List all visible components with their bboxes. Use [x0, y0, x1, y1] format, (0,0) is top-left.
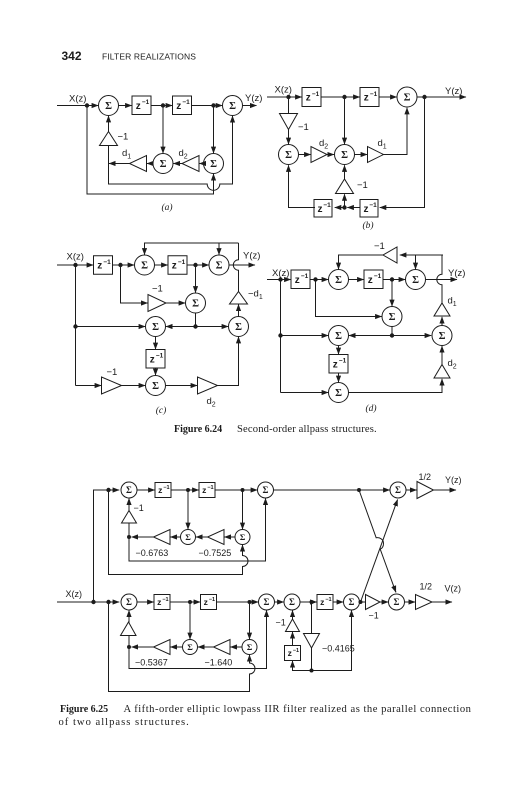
junction feedback bottom: [127, 645, 131, 649]
svg-text:FILTER REALIZATIONS: FILTER REALIZATIONS: [102, 52, 196, 62]
label -1 (d): [374, 241, 385, 252]
summer S3 (b): [335, 145, 355, 165]
wire -1 gain to S2 (b): [288, 130, 290, 145]
summer S5 (d): [432, 326, 452, 346]
wire Z2 to S1 (b): [379, 96, 397, 98]
wire BO1 to half gain: [405, 601, 415, 603]
wire B6 to -1.640 gain: [230, 646, 241, 648]
wire top feedback (d): [400, 254, 443, 256]
junction after Z2 (d): [390, 277, 394, 281]
svg-text:(d): (d): [365, 403, 376, 414]
summer B4 first-order: [344, 594, 360, 610]
wire tap U2 to B6: [249, 602, 251, 639]
junction top outer feedback: [106, 488, 110, 492]
wire Z1 to Z2 (b): [321, 96, 360, 98]
wire top feedback to S2 (c): [218, 243, 220, 255]
node X(z) label (c): [67, 252, 84, 263]
wire input X(z) (a): [57, 105, 98, 107]
label -1 top branch: [134, 503, 144, 513]
gain -1 triangle apex left (d): [383, 247, 397, 263]
svg-text:−1: −1: [370, 91, 378, 98]
wire outer feedback to S4 (a): [87, 106, 214, 195]
summer S5 (c): [229, 317, 249, 337]
wire S3 to d1 gain (b): [355, 154, 368, 156]
summer A4 top: [235, 530, 250, 545]
svg-text:−1: −1: [323, 202, 331, 209]
svg-text:Σ: Σ: [185, 532, 191, 542]
wire d2 to S3 (a): [173, 163, 182, 165]
wire output Y(z) (a): [243, 105, 257, 107]
node X(z) label (a): [69, 94, 86, 105]
svg-text:Second-order allpass structure: Second-order allpass structures.: [237, 424, 377, 435]
wire S5 to -d1 gain (c): [238, 304, 240, 316]
delay Z1 (a): [132, 96, 151, 115]
junction butterfly top: [357, 488, 361, 492]
svg-text:−1: −1: [209, 597, 215, 603]
wire S1 to delay Z1 (a): [119, 105, 132, 107]
wire S3 down to junction (c): [195, 313, 197, 327]
svg-text:Σ: Σ: [105, 101, 112, 112]
wire B4 to -1 gain bottom: [360, 601, 366, 603]
svg-text:Σ: Σ: [335, 388, 342, 399]
svg-text:z: z: [368, 275, 373, 286]
label -1.640: [205, 658, 233, 668]
junction after Z1 (a): [161, 103, 165, 107]
svg-text:−1: −1: [107, 367, 118, 378]
wire junction to S4 (c): [166, 326, 196, 328]
gain -0.4165 triangle apex down: [304, 634, 320, 649]
junction input branch (c): [73, 263, 77, 267]
svg-text:Y(z): Y(z): [245, 93, 262, 104]
node X(z) label (b): [275, 85, 292, 96]
node X(z) label (d): [272, 268, 289, 279]
svg-text:1/2: 1/2: [420, 582, 433, 592]
wire -d1 up with hop (c): [233, 243, 238, 292]
junction after Z1 (c): [118, 263, 122, 267]
svg-text:Figure 6.25: Figure 6.25: [60, 704, 108, 715]
wire Z3 to S6 (d): [338, 373, 340, 382]
gain d2 triangle (d): [434, 365, 450, 379]
svg-text:z: z: [97, 261, 102, 272]
wire input X(z) (b): [267, 96, 302, 98]
label d1 (a): [122, 148, 131, 160]
node Y(z) label (b): [445, 86, 462, 97]
svg-text:z: z: [204, 597, 208, 607]
wire -1 lower to S6 (c): [122, 385, 146, 387]
wire -1 gain to S1 (a): [108, 116, 110, 132]
junction input branch (b): [286, 95, 290, 99]
gain -0.5367 triangle: [154, 640, 171, 655]
wire -1 gain to S1 (d): [339, 255, 384, 269]
wire B3 to delay U3: [300, 601, 317, 603]
label -0.6763: [136, 548, 169, 558]
node X(z) label 6.25: [66, 589, 83, 599]
svg-text:342: 342: [62, 49, 82, 63]
label (c): [156, 405, 167, 416]
gain -1 triangle (a): [100, 132, 118, 146]
label -1 upper (b): [298, 122, 309, 133]
gain -1 triangle apex down (b): [280, 114, 298, 130]
svg-text:Σ: Σ: [152, 381, 159, 392]
wire X to S6 (d): [281, 392, 329, 394]
wire d1 to S1 (b): [384, 108, 408, 155]
wire inner feedback top to A2: [129, 498, 266, 561]
wire tap to -0.4165 gain: [311, 602, 313, 634]
junction feedback top: [127, 535, 131, 539]
wire inner feedback bottom to B2: [129, 610, 267, 668]
summer S4 (a): [204, 154, 224, 174]
svg-text:(a): (a): [161, 202, 172, 213]
gain half triangle bottom: [416, 595, 433, 610]
svg-text:Σ: Σ: [210, 159, 217, 170]
svg-text:z: z: [320, 597, 324, 607]
junction bottom (b): [342, 205, 346, 209]
svg-text:−1: −1: [293, 648, 299, 654]
svg-text:−1: −1: [298, 122, 309, 133]
label -0.4165: [322, 644, 355, 654]
junction X vertical row3 (c): [73, 324, 77, 328]
wire inner feedback with hop to S2 (a): [109, 116, 233, 190]
svg-text:Σ: Σ: [335, 331, 342, 342]
wire butterfly descending with hop: [359, 490, 396, 592]
svg-text:X(z): X(z): [67, 252, 84, 263]
gain -1 triangle first-order: [286, 619, 300, 632]
wire X riser to top branch: [94, 490, 120, 602]
svg-text:Σ: Σ: [192, 299, 199, 310]
wire S4 to Z3 (d): [338, 346, 340, 355]
label (a): [161, 202, 172, 213]
wire A3 to -0.6763 gain: [170, 536, 180, 538]
wire tap Z2 to S3 (d): [391, 280, 393, 307]
svg-text:−1: −1: [163, 485, 169, 491]
gain -1 triangle before output: [366, 595, 381, 610]
svg-text:Σ: Σ: [439, 331, 446, 342]
wire junction to S5 (d): [392, 335, 431, 337]
wire junction to S4 (d): [349, 335, 392, 337]
label d2 (b): [319, 138, 328, 150]
svg-text:−1: −1: [103, 259, 111, 266]
svg-text:−1: −1: [312, 91, 320, 98]
svg-text:z: z: [158, 485, 162, 495]
wire Z1 to S1 (c): [113, 264, 135, 266]
summer S3 (c): [186, 293, 206, 313]
node Y(z) label (a): [245, 93, 262, 104]
wire S4 to d2 gain (a): [199, 163, 203, 165]
summer B2 bottom: [259, 594, 275, 610]
delay U4 first-order feedback: [285, 646, 301, 661]
svg-text:−1: −1: [276, 618, 286, 628]
delay U3 first-order: [317, 595, 333, 610]
wire S2 to d2 gain (b): [299, 154, 311, 156]
junction after U1 bottom: [188, 600, 192, 604]
summer S2 (c): [209, 255, 229, 275]
junction X vertical row3 (d): [278, 333, 282, 337]
label -1 mid (c): [152, 284, 163, 295]
wire U4 to -1 gain first-order: [292, 632, 294, 646]
label -0.5367: [135, 658, 168, 668]
node Y(z) label (c): [243, 251, 260, 262]
wire butterfly ascending: [361, 500, 398, 603]
wire -0.6763 to junction: [132, 536, 154, 538]
svg-text:Σ: Σ: [341, 150, 348, 161]
wire -0.4165 to first-order line: [311, 648, 313, 671]
wire outer feedback bottom with hop to B6: [109, 602, 256, 692]
wire d2 to S3 (b): [327, 154, 334, 156]
summer S6 (d): [329, 383, 349, 403]
wire input X(z) 6.25: [57, 601, 119, 603]
wire S1 to Z2 (d): [349, 279, 364, 281]
delay Z2 (b): [360, 88, 379, 107]
wire input X(z) (c): [57, 264, 93, 266]
svg-text:z: z: [333, 359, 338, 370]
junction after T1 top: [186, 488, 190, 492]
delay Z2 (a): [173, 96, 192, 115]
svg-text:Σ: Σ: [160, 159, 167, 170]
svg-text:Y(z): Y(z): [243, 251, 260, 262]
svg-text:Figure 6.24: Figure 6.24: [174, 424, 222, 435]
summer S1 (a): [99, 96, 119, 116]
wire half gain to V(z): [432, 601, 452, 603]
label -1 (a): [118, 132, 129, 143]
caption figure 6.24: [174, 424, 377, 435]
svg-text:Σ: Σ: [216, 261, 223, 272]
wire junction to Z3 (b): [335, 207, 345, 209]
wire U1 to U2 bottom: [170, 601, 200, 603]
svg-text:Σ: Σ: [289, 597, 295, 607]
wire junction to S5 (c): [196, 326, 229, 328]
svg-text:Σ: Σ: [264, 597, 270, 607]
svg-text:z: z: [364, 93, 369, 104]
junction butterfly bottom: [359, 600, 363, 604]
wire B2 to B3: [275, 601, 284, 603]
summer B3 first-order: [284, 594, 300, 610]
gain d1 triangle (d): [434, 303, 450, 316]
label -0.7525: [199, 548, 232, 558]
gain d2 triangle (a): [182, 156, 199, 172]
summer S3 (a): [153, 154, 173, 174]
svg-text:−1: −1: [142, 99, 150, 106]
junction centre row3 (d): [390, 333, 394, 337]
summer S3 (d): [382, 307, 402, 327]
gain -1 triangle apex up (b): [336, 179, 354, 194]
wire branch to -1 top: [128, 523, 130, 537]
label 1/2 top: [419, 472, 432, 482]
wire -0.7525 to A3: [196, 536, 208, 538]
wire S6 to d2 gain (d): [349, 379, 442, 393]
wire -1 to A1 top: [128, 498, 130, 510]
wire X vertical (c): [75, 265, 77, 386]
summer S2 (d): [406, 270, 426, 290]
gain -1 triangle top branch: [122, 511, 137, 524]
svg-text:z: z: [295, 275, 300, 286]
svg-text:1/2: 1/2: [419, 472, 432, 482]
wire output Y(z) (d): [426, 279, 457, 281]
summer S6 (c): [146, 376, 166, 396]
wire Z1 to Z2 (a): [151, 105, 172, 107]
svg-text:z: z: [150, 354, 155, 365]
svg-text:Y(z): Y(z): [448, 268, 465, 279]
svg-text:−0.7525: −0.7525: [199, 548, 232, 558]
svg-text:−1: −1: [325, 597, 331, 603]
svg-text:z: z: [317, 204, 322, 215]
delay Z4 (b): [360, 200, 378, 218]
summer AO1 output top: [390, 482, 406, 498]
summer B5 bottom: [183, 640, 198, 655]
wire top feedback to S2 (d): [415, 255, 417, 269]
svg-text:V(z): V(z): [445, 584, 462, 594]
svg-text:Σ: Σ: [349, 597, 355, 607]
svg-text:Σ: Σ: [395, 485, 401, 495]
svg-text:z: z: [288, 648, 292, 658]
junction after Z1 (d): [313, 277, 317, 281]
svg-text:Σ: Σ: [404, 93, 411, 104]
delay Z2 (d): [364, 270, 383, 289]
svg-text:z: z: [172, 261, 177, 272]
svg-text:z: z: [363, 204, 368, 215]
junction first-order feedback: [310, 669, 314, 673]
summer A1 top: [121, 482, 137, 498]
svg-text:of two allpass structures.: of two allpass structures.: [59, 717, 190, 728]
summer S1 (b): [397, 87, 417, 107]
wire S4 to Z3 (c): [155, 337, 157, 350]
delay T1 top: [155, 483, 171, 498]
svg-text:z: z: [157, 597, 161, 607]
wire tap U1 to B5: [189, 602, 191, 639]
wire X to S4 (c): [76, 326, 146, 328]
label d2 (c): [207, 396, 216, 408]
gain -d1 triangle (c): [230, 292, 248, 305]
junction output branch (b): [422, 95, 426, 99]
svg-text:−1: −1: [301, 273, 309, 280]
wire tap T1 to A3 top: [187, 490, 189, 529]
gain -0.6763 triangle: [154, 530, 171, 545]
svg-text:−1: −1: [178, 259, 186, 266]
junction after Z2 (a): [211, 103, 215, 107]
svg-text:−1: −1: [182, 99, 190, 106]
caption figure 6.25 line 1: [60, 704, 472, 715]
summer S1 (c): [135, 255, 155, 275]
svg-text:X(z): X(z): [275, 85, 292, 96]
wire tap Z2 to S3 (c): [195, 265, 197, 293]
summer S2 (b): [279, 145, 299, 165]
wire -1 first-order to B3: [292, 610, 294, 619]
junction input branch (d): [278, 277, 282, 281]
svg-text:−1: −1: [369, 202, 377, 209]
summer BO1 output bottom: [389, 594, 405, 610]
svg-text:−1: −1: [152, 284, 163, 295]
wire tap Z2 to S4 (a): [213, 106, 215, 154]
wire d1 to branch node (a): [109, 163, 130, 165]
delay T2 top: [199, 483, 215, 498]
wire tap to S3 (b): [344, 97, 346, 144]
wire S3 to d1 gain (a): [147, 163, 153, 165]
svg-text:(b): (b): [362, 220, 373, 231]
wire B5 to -0.5367 gain: [170, 646, 182, 648]
junction bottom outer feedback: [106, 600, 110, 604]
svg-text:Σ: Σ: [285, 150, 292, 161]
svg-text:z: z: [176, 101, 181, 112]
node Y(z) label (d): [448, 268, 465, 279]
wire A1 to delay T1: [137, 489, 155, 491]
wire S3 down to junction (d): [391, 327, 393, 336]
svg-text:−1: −1: [374, 273, 382, 280]
wire Z1 to S1 (d): [310, 279, 328, 281]
wire outer feedback top with hop to A4: [109, 490, 249, 575]
wire Z4 to junction (b): [347, 207, 360, 209]
label d1 (d): [448, 296, 457, 308]
svg-text:Σ: Σ: [263, 485, 269, 495]
label d2 (a): [179, 148, 188, 160]
wire tap Z1 to S3 (d): [316, 280, 382, 317]
summer B6 bottom: [242, 640, 257, 655]
wire tap Z1 to S3 (a): [162, 106, 164, 154]
svg-text:Y(z): Y(z): [445, 475, 462, 485]
gain -1 lower triangle (c): [102, 377, 122, 394]
delay U2 bottom: [201, 595, 217, 610]
wire branch to -1 bottom: [128, 635, 130, 647]
svg-text:Σ: Σ: [335, 275, 342, 286]
svg-text:−0.5367: −0.5367: [135, 658, 168, 668]
svg-text:X(z): X(z): [69, 94, 86, 105]
gain d2 triangle (b): [311, 147, 327, 163]
summer B1 bottom: [121, 594, 137, 610]
wire A4 to -0.7525 gain: [224, 536, 234, 538]
svg-text:Σ: Σ: [141, 261, 148, 272]
svg-text:−1: −1: [339, 358, 347, 365]
wire Z2 to S2 (a): [192, 105, 223, 107]
summer S1 (d): [329, 270, 349, 290]
wire d2 to S5 (d): [441, 346, 443, 365]
wire S6 to d2 gain (c): [166, 385, 198, 387]
wire S5 to d1 gain (d): [441, 317, 443, 325]
node V(z) label: [445, 584, 462, 594]
svg-text:Σ: Σ: [394, 597, 400, 607]
summer A2 top: [258, 482, 274, 498]
caption figure 6.25 line 2: [59, 717, 190, 728]
wire -1 mid to S3 (c): [166, 302, 185, 304]
wire X vertical (d): [280, 280, 282, 393]
junction after Z1 (b): [342, 95, 346, 99]
svg-text:−1: −1: [156, 353, 164, 360]
svg-text:z: z: [306, 93, 311, 104]
wire S1 to Z2 (c): [155, 264, 168, 266]
wire -1 to B1 bottom: [128, 610, 130, 622]
wire output Y(z) (c): [229, 264, 255, 266]
wire Z3 to S6 (c): [155, 368, 157, 375]
node Y(z) label 6.25: [445, 475, 462, 485]
wire first-order line right to B4: [312, 610, 352, 670]
gain d2 triangle (c): [198, 377, 218, 394]
svg-text:(c): (c): [156, 405, 167, 416]
header page number 342: [62, 49, 82, 63]
svg-text:−1: −1: [374, 241, 385, 252]
label -1 first-order: [276, 618, 286, 628]
wire output Y(z) (b): [417, 96, 466, 98]
delay Z3 (c): [146, 350, 165, 369]
delay U1 bottom: [154, 595, 170, 610]
wire U2 to B2 bottom: [217, 601, 259, 603]
svg-text:−1: −1: [134, 503, 144, 513]
wire tap Z1 to -1 mid (c): [121, 265, 148, 303]
gain -1 triangle bottom branch: [121, 622, 137, 636]
summer S4 (d): [329, 326, 349, 346]
delay Z1 (d): [291, 270, 310, 289]
wire d1 up with hop (d): [437, 255, 443, 303]
wire U3 to B4: [333, 601, 343, 603]
svg-text:Σ: Σ: [126, 485, 132, 495]
wire A2 to output summer: [274, 489, 390, 491]
summer S2 (a): [223, 96, 243, 116]
